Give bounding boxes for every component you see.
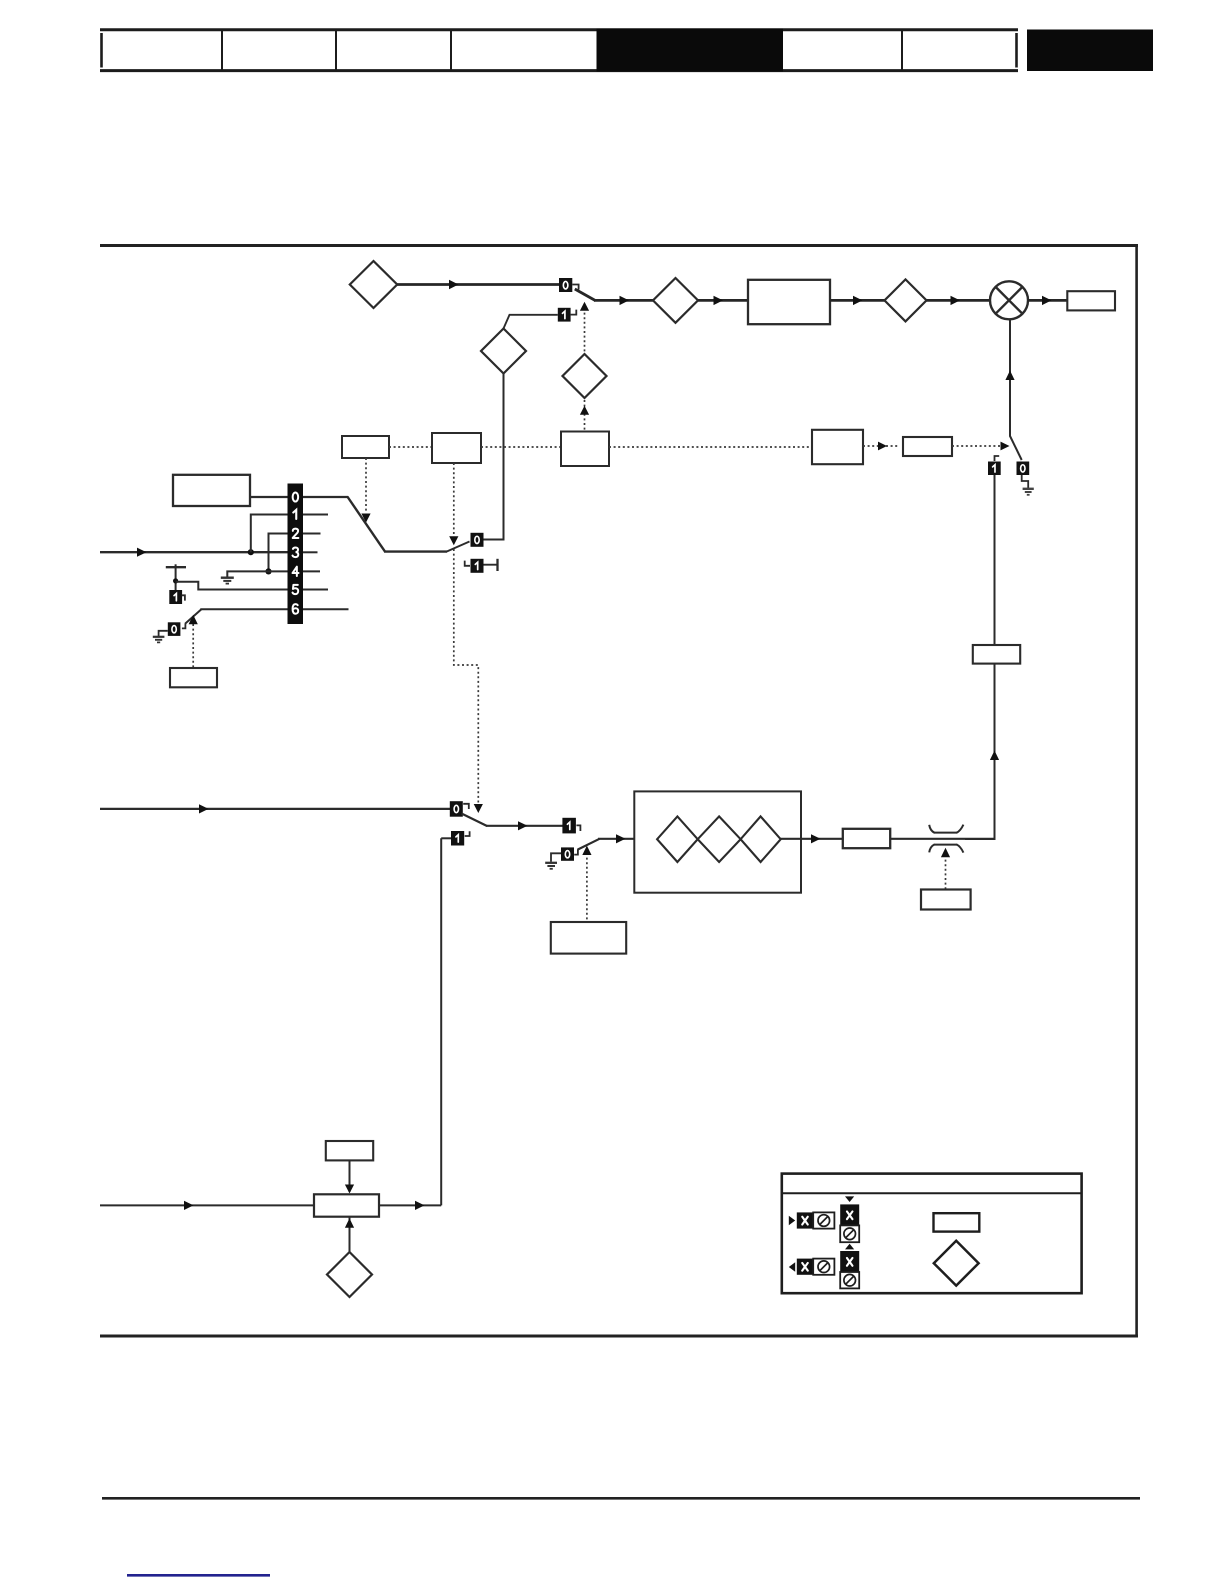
dotted control to S1 from diamond E [584, 308, 586, 354]
junction dot node J2 [265, 568, 271, 574]
wire diamond D down to contact 0 of S2 [484, 374, 504, 540]
arrowhead control connector [941, 848, 950, 857]
ground G1 [1023, 489, 1034, 495]
footer rule [102, 1497, 1140, 1500]
wire terminal 4 to ground [227, 571, 287, 577]
box D5 [903, 437, 952, 456]
arrowhead control diamond E [580, 406, 589, 415]
arrow on wire A [449, 280, 459, 289]
pump diamond 2 [698, 816, 741, 862]
switch S4 contact 0 hook [463, 804, 469, 809]
wire lamp down to switch S3 [1009, 319, 1011, 437]
pump unit box [634, 791, 801, 892]
switch S3 arm [1010, 436, 1022, 460]
legend pair A (X / no-flow) [797, 1212, 835, 1228]
legend sample diamond [934, 1241, 979, 1286]
terminal 5 stub right [303, 589, 328, 591]
arrowhead into F2 bottom [345, 1218, 354, 1228]
terminal 2 stub right [303, 533, 321, 535]
wire diamond C to lamp [927, 299, 991, 302]
box B5 [973, 645, 1020, 664]
arrow before diamond C [853, 296, 863, 305]
arrow before lamp [951, 296, 961, 305]
connector symbol (flex joint) [929, 825, 963, 853]
box B6 [921, 890, 971, 910]
terminal 0 stub right [303, 496, 348, 498]
branch contact 1b hook [465, 831, 470, 836]
wire contact 0 to ground [159, 631, 168, 636]
wire S2 contact 0 to riser [484, 539, 505, 541]
wire S5 contact 0 to ground [551, 853, 561, 862]
switch S3 contact 0 [1017, 462, 1030, 476]
terminal 3 stub right [303, 551, 318, 553]
header active tab (black cell) [597, 29, 784, 72]
dotted control from box D3 to diamond E [584, 400, 586, 431]
legend pair B (X / no-flow) [797, 1259, 835, 1275]
legend arrow up [845, 1244, 854, 1250]
diamond F [327, 1252, 372, 1297]
diamond A (top-left pump) [350, 261, 397, 308]
box D2 [432, 433, 481, 463]
arrow before box B2 [1042, 296, 1052, 305]
sensor T-bar [166, 566, 186, 568]
pump diamond 3 [741, 816, 781, 862]
wire contact0 to ground jog [1022, 475, 1028, 488]
switch S3 contact 1 hook [995, 456, 1000, 461]
diamond B [653, 278, 698, 323]
wire terminal 2 elbow down to terminal 4 line [269, 534, 288, 572]
dotted control from D2 to S2 [453, 463, 455, 536]
wire F1 down to F2 [349, 1160, 351, 1192]
switch S5 contact 0 hook [574, 849, 578, 854]
switch S1 contact 1 hook [571, 310, 577, 315]
switch S2 contact 1 hook [465, 561, 470, 566]
switch S4 arm [462, 814, 488, 827]
arrow before diamond B [620, 296, 630, 305]
long riser wire down to flowchart [440, 838, 442, 1205]
box B1 [748, 280, 830, 324]
wire box B1 to diamond C [830, 299, 885, 302]
ground G4 [545, 863, 557, 869]
wire box B5 down to connector corner [965, 664, 995, 839]
arrow on input wire 1 [137, 548, 147, 557]
legend arrow right [789, 1216, 795, 1226]
wire lamp to box B2 [1028, 299, 1067, 302]
switch S2 contact 0 [471, 533, 484, 547]
arrow on input wire 3 [184, 1201, 194, 1210]
arrowhead into F2 [345, 1185, 354, 1194]
rotary arm diagonal [347, 497, 385, 552]
arrowhead control S2 [449, 536, 458, 545]
arrow up on riser wire [990, 751, 999, 761]
switch S1 arm [575, 289, 596, 301]
rotary contact 0 [168, 622, 181, 636]
diamond D [481, 329, 526, 374]
box F1 [326, 1141, 373, 1160]
box B4 [843, 829, 890, 848]
switch S4 contact 1 [562, 818, 576, 834]
dashed wire D3 to D4 [609, 446, 812, 448]
switch S1 contact 0 hook [572, 285, 578, 290]
switch S4 contact 0 [450, 801, 463, 817]
legend arrow left [789, 1262, 795, 1272]
arrow on F2 output wire [415, 1201, 425, 1210]
switch S1 contact 0 [559, 278, 572, 292]
box D4 [812, 430, 863, 464]
wire box B4 to connector [890, 838, 994, 840]
branch contact 1b [451, 831, 464, 846]
dotted control from box R2 to rotary contact arm [192, 624, 194, 668]
arrow after pump box [811, 834, 821, 843]
box R2 [170, 668, 217, 687]
arrowhead control S5 [582, 846, 591, 855]
diamond C [885, 279, 927, 321]
rotary contact 1 hook [182, 595, 185, 600]
pump diamond 1 [657, 816, 698, 862]
input wire 2 [100, 808, 450, 810]
terminal 6 stub right [303, 608, 349, 610]
arm tip diagonal to contact 0 of S2 [447, 542, 470, 552]
arrow up on lamp wire [1005, 371, 1014, 381]
wire diamond B to box B1 [698, 299, 748, 302]
rotary contact 0 hook [182, 623, 186, 628]
wire R1 to rotary terminal 0 [250, 496, 288, 498]
arrowhead at lamp switch [1001, 442, 1010, 451]
junction dot node J1 [248, 549, 254, 555]
input wire 3 [100, 1204, 314, 1206]
lamp L1 (circle-X) [990, 281, 1028, 319]
switch S2 contact 1 [471, 559, 484, 573]
box F2 [314, 1194, 379, 1216]
header right black button [1027, 30, 1153, 72]
switch S2 contact 1 T-bar [484, 559, 498, 571]
elbow wire to terminal 5 [176, 582, 288, 590]
dotted control continuation down to S4 [454, 549, 479, 803]
rotary selector bar [288, 484, 304, 625]
wire S1 to diamond B [594, 299, 653, 302]
legend header divider [782, 1192, 1082, 1194]
legend box [782, 1174, 1082, 1294]
dashed wire D1 to D2 [389, 446, 432, 448]
wire pump box to box B4 [780, 838, 843, 840]
header table row [100, 29, 1018, 71]
switch S5 arm [578, 839, 600, 850]
dashed wire D4 to D5 [863, 445, 898, 447]
dashed wire D5 to lamp switch [952, 445, 1000, 447]
arrow on S4 wire [518, 821, 528, 830]
switch S5 contact 0 [561, 847, 574, 860]
wire F2 to riser corner [379, 1204, 441, 1206]
rotary arm horizontal [384, 550, 447, 552]
diagram frame right border [1135, 244, 1138, 1337]
terminal 1 stub right [303, 514, 328, 516]
dotted control D1 down to rotary arm [365, 458, 367, 513]
switch S4 contact 1 hook [576, 825, 580, 831]
wire contact1 to diamond D [504, 315, 558, 329]
switch S1 contact 1 [558, 308, 571, 322]
dotted control from box B3 to S5 [586, 853, 588, 922]
dotted control from box B6 to connector [945, 855, 947, 890]
legend sample rect [934, 1213, 980, 1231]
diagram frame top border [100, 244, 1138, 247]
box B3 [551, 922, 626, 954]
terminal 6 wire left segment [200, 608, 287, 610]
box R1 (rotary switch feed) [173, 475, 250, 506]
arrow before box B1 [714, 296, 724, 305]
box D3 [561, 432, 609, 467]
arrowhead control S1 [580, 302, 589, 311]
box B2 [1067, 291, 1115, 310]
box D1 (control row) [342, 436, 389, 458]
arrow on input wire 2 [199, 804, 209, 813]
rotary contact 1 [169, 590, 182, 604]
wire contact 1b to long riser [441, 837, 451, 839]
arrow on S5 wire [616, 834, 626, 843]
arrowhead control S4 [474, 804, 483, 813]
arrowhead control rotary contact [189, 615, 198, 625]
switch S3 contact 1 [988, 462, 1001, 476]
wire diamond F up to F2 [349, 1218, 351, 1253]
legend stack B (X over no-flow) [840, 1251, 859, 1288]
wire S4 arm to contact 1 [486, 825, 563, 827]
ground G2 [221, 578, 234, 584]
legend stack A (X over no-flow) [840, 1204, 859, 1242]
dashed wire D2 to D3 [481, 446, 561, 448]
diamond E [563, 354, 607, 398]
wire A to switch contact 0 [397, 283, 559, 286]
arrow before box D5 [878, 442, 887, 451]
junction dot on sensor stem [173, 578, 178, 583]
input wire 1 (to terminal 3) [100, 551, 288, 553]
rotary terminal digits [293, 492, 299, 613]
legend arrow down [845, 1196, 854, 1202]
wire S3 contact1 down to box B5 [994, 475, 996, 645]
wire J1 up to terminal 1 [251, 515, 288, 553]
arm from contact 0 to terminal 6 [185, 609, 201, 623]
footer blue link line [127, 1574, 270, 1577]
diagram frame bottom border [100, 1335, 1138, 1338]
T-bar stem to contact 1 [175, 564, 177, 590]
terminal 4 stub right [303, 570, 320, 572]
arrowhead control rotary arm [361, 514, 370, 523]
ground G3 [153, 637, 165, 643]
wire S5 arm to pump box [598, 838, 658, 840]
